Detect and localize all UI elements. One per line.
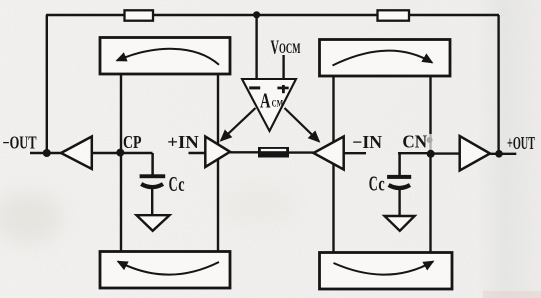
label +IN xyxy=(167,132,199,152)
svg-text:CN: CN xyxy=(402,132,427,152)
gain block box bottom-right xyxy=(320,253,453,290)
node CP junction xyxy=(116,149,124,157)
buffer amp right (+OUT) xyxy=(460,136,490,171)
node: top rail junction xyxy=(253,11,260,18)
node: -OUT junction xyxy=(43,149,51,157)
wire: -IN input segment xyxy=(343,152,366,154)
svg-text:C: C xyxy=(369,172,378,196)
svg-text:OCM: OCM xyxy=(279,41,301,57)
wire: arrow Acm to +IN stage xyxy=(221,108,256,141)
wire: right gain-block legs x=333 xyxy=(332,75,334,252)
wire: Vocm+ input below label xyxy=(282,55,284,80)
wire: CN segment with cap corner xyxy=(398,152,431,154)
gain block box top-right xyxy=(320,40,451,77)
label +OUT xyxy=(507,133,535,153)
label Cc (left) xyxy=(169,172,185,196)
label -IN xyxy=(352,132,382,152)
svg-text:c: c xyxy=(378,174,384,196)
label -OUT xyxy=(3,132,37,152)
wire: top feedback rail xyxy=(46,14,499,16)
node CN junction xyxy=(427,150,435,158)
svg-text:C: C xyxy=(169,172,178,196)
svg-text:c: c xyxy=(178,174,184,196)
capacitor C1 (left Cc) xyxy=(140,153,166,216)
wire: +IN input segment xyxy=(189,152,207,154)
label Vocm xyxy=(271,37,301,58)
label Cc (right) xyxy=(369,172,385,196)
wire: +IN output to middle resistor xyxy=(229,151,259,153)
label CP xyxy=(123,132,142,152)
ground (left) xyxy=(137,215,170,231)
wire: arrow Acm to -IN stage xyxy=(285,108,320,142)
wire: right buffer output to +OUT xyxy=(489,153,516,155)
svg-text:CP: CP xyxy=(123,132,142,152)
resistor R3 (middle, between input stages) xyxy=(258,147,289,158)
capacitor C2 (right Cc) xyxy=(387,153,411,216)
wire: left vertical feedback xyxy=(46,15,48,153)
svg-text:A: A xyxy=(260,89,271,113)
scan tint bottom-right xyxy=(483,291,541,298)
resistor R2 (top-right feedback) xyxy=(378,10,410,20)
svg-text:+IN: +IN xyxy=(167,132,199,152)
wire: left buffer output to CP and cap corner xyxy=(91,152,153,154)
input amp +IN xyxy=(205,137,230,168)
resistor R1 (top-left feedback) xyxy=(125,10,154,20)
svg-text:−IN: −IN xyxy=(352,132,382,152)
svg-text:V: V xyxy=(271,37,280,58)
wire: left gain-block legs x=121 xyxy=(120,73,122,252)
wire: Vocm- input from rail xyxy=(255,15,257,80)
wire: left gain-block legs x=218 xyxy=(217,73,219,252)
wire: right gain-block legs x=430 xyxy=(427,75,433,252)
gain block box top-left xyxy=(100,38,230,75)
ground (right) xyxy=(385,216,415,231)
buffer amp left (-OUT) xyxy=(61,137,92,170)
wire: middle resistor to -IN tip xyxy=(288,151,315,153)
op-amp Acm (common-mode amplifier) xyxy=(242,79,296,131)
label CN xyxy=(402,132,427,152)
node: +OUT junction xyxy=(495,150,503,158)
input amp -IN xyxy=(314,137,344,170)
svg-text:+OUT: +OUT xyxy=(507,133,535,153)
wire: right vertical feedback xyxy=(497,15,499,154)
wire: -OUT stub and line to left buffer xyxy=(30,152,62,154)
wire: CN to right buffer xyxy=(430,152,460,154)
svg-text:−OUT: −OUT xyxy=(3,132,37,152)
svg-text:CM: CM xyxy=(272,99,284,109)
gain block box bottom-left xyxy=(100,252,230,289)
